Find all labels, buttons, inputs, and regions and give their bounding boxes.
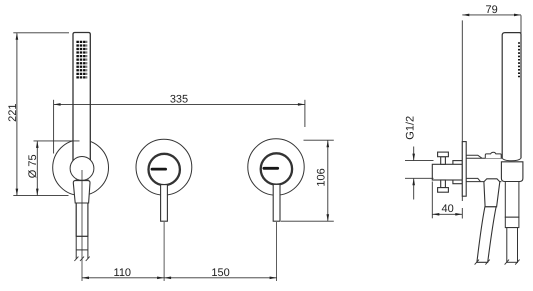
G1/2 dim arrows [413, 147, 415, 161]
dim 335 line [54, 103, 305, 105]
escutcheon circle C1 (hand-shower holder) [53, 140, 109, 196]
lever C3 [273, 184, 280, 221]
svg-text:221: 221 [7, 104, 19, 122]
dim 221 extension top [13, 32, 69, 34]
dim 75 extension top [34, 140, 80, 142]
dim 75 line [36, 141, 38, 195]
holder ring top line (side) [466, 155, 482, 158]
valve collar at flange (side) [453, 161, 462, 184]
wand collar block (side) [501, 162, 523, 182]
svg-text:40: 40 [441, 203, 453, 215]
dim 106 line [327, 141, 329, 221]
escutcheon circle C3 [248, 139, 304, 195]
dim 106 extension top [304, 139, 334, 141]
bottom pin cap [438, 188, 449, 193]
wand inner tail tube (front) [76, 172, 88, 236]
G1/2 dim extensions [405, 160, 434, 162]
hand shower wand body (front view) [73, 33, 90, 162]
dim 335 extension right [304, 100, 306, 127]
centerline under wand [81, 170, 83, 281]
holder ring bottom line (side) [466, 178, 480, 181]
top pin cap [438, 152, 449, 157]
dim 110/150 baseline [82, 277, 277, 279]
dim 40 line [432, 213, 462, 215]
flexible hose (side, curved) [477, 207, 496, 262]
svg-text:335: 335 [170, 94, 188, 106]
wand head (side view) [502, 33, 521, 159]
holder release tab [485, 152, 501, 158]
wall / flange-face extension line [461, 20, 463, 201]
slot mark C3 [264, 167, 278, 170]
svg-text:106: 106 [315, 168, 327, 186]
lever C2 [161, 185, 168, 222]
bottom pin [441, 180, 446, 188]
svg-text:79: 79 [485, 4, 497, 16]
escutcheon circle C2 [136, 139, 192, 195]
dim 221 line [16, 33, 18, 195]
holder ring (small circle) [70, 157, 94, 181]
top pin [441, 157, 446, 165]
handle rosette C3 [261, 153, 292, 184]
wand head neck fillet [502, 158, 521, 160]
svg-text:150: 150 [211, 267, 229, 279]
valve G1/2 tube (side) [432, 164, 462, 180]
handle rosette C2 [149, 154, 180, 185]
hose nut joint lines [76, 235, 88, 237]
centerline under lever C2 [163, 222, 165, 281]
nozzle dotted line (side) [518, 42, 520, 77]
wand lower leg (side) [505, 182, 519, 218]
dim 335 extension left [53, 100, 55, 154]
spray face hatch rows [76, 42, 87, 78]
wand tail inner lines continuation [75, 203, 77, 259]
extension to wand outer face [520, 15, 522, 33]
svg-text:G1/2: G1/2 [404, 116, 416, 140]
dim 40 extension left [431, 182, 433, 219]
grip cone (front) [73, 181, 90, 203]
centerline under lever C3 [276, 222, 278, 281]
dim 79 line [462, 14, 521, 16]
svg-text:110: 110 [114, 267, 132, 279]
hose break hatch (front) [74, 257, 89, 261]
dim 106 extension bottom [281, 220, 334, 222]
wall flange disc (side) [462, 142, 466, 197]
dim 221/75 extension bottom [13, 195, 68, 197]
grip cone (side) [484, 179, 500, 207]
hose break hatch (side hose) [475, 260, 490, 265]
dim 40 extension right stub [461, 208, 463, 219]
slot mark C2 [152, 168, 166, 171]
svg-text:Ø 75: Ø 75 [27, 154, 39, 178]
leg break hatch [505, 260, 520, 265]
